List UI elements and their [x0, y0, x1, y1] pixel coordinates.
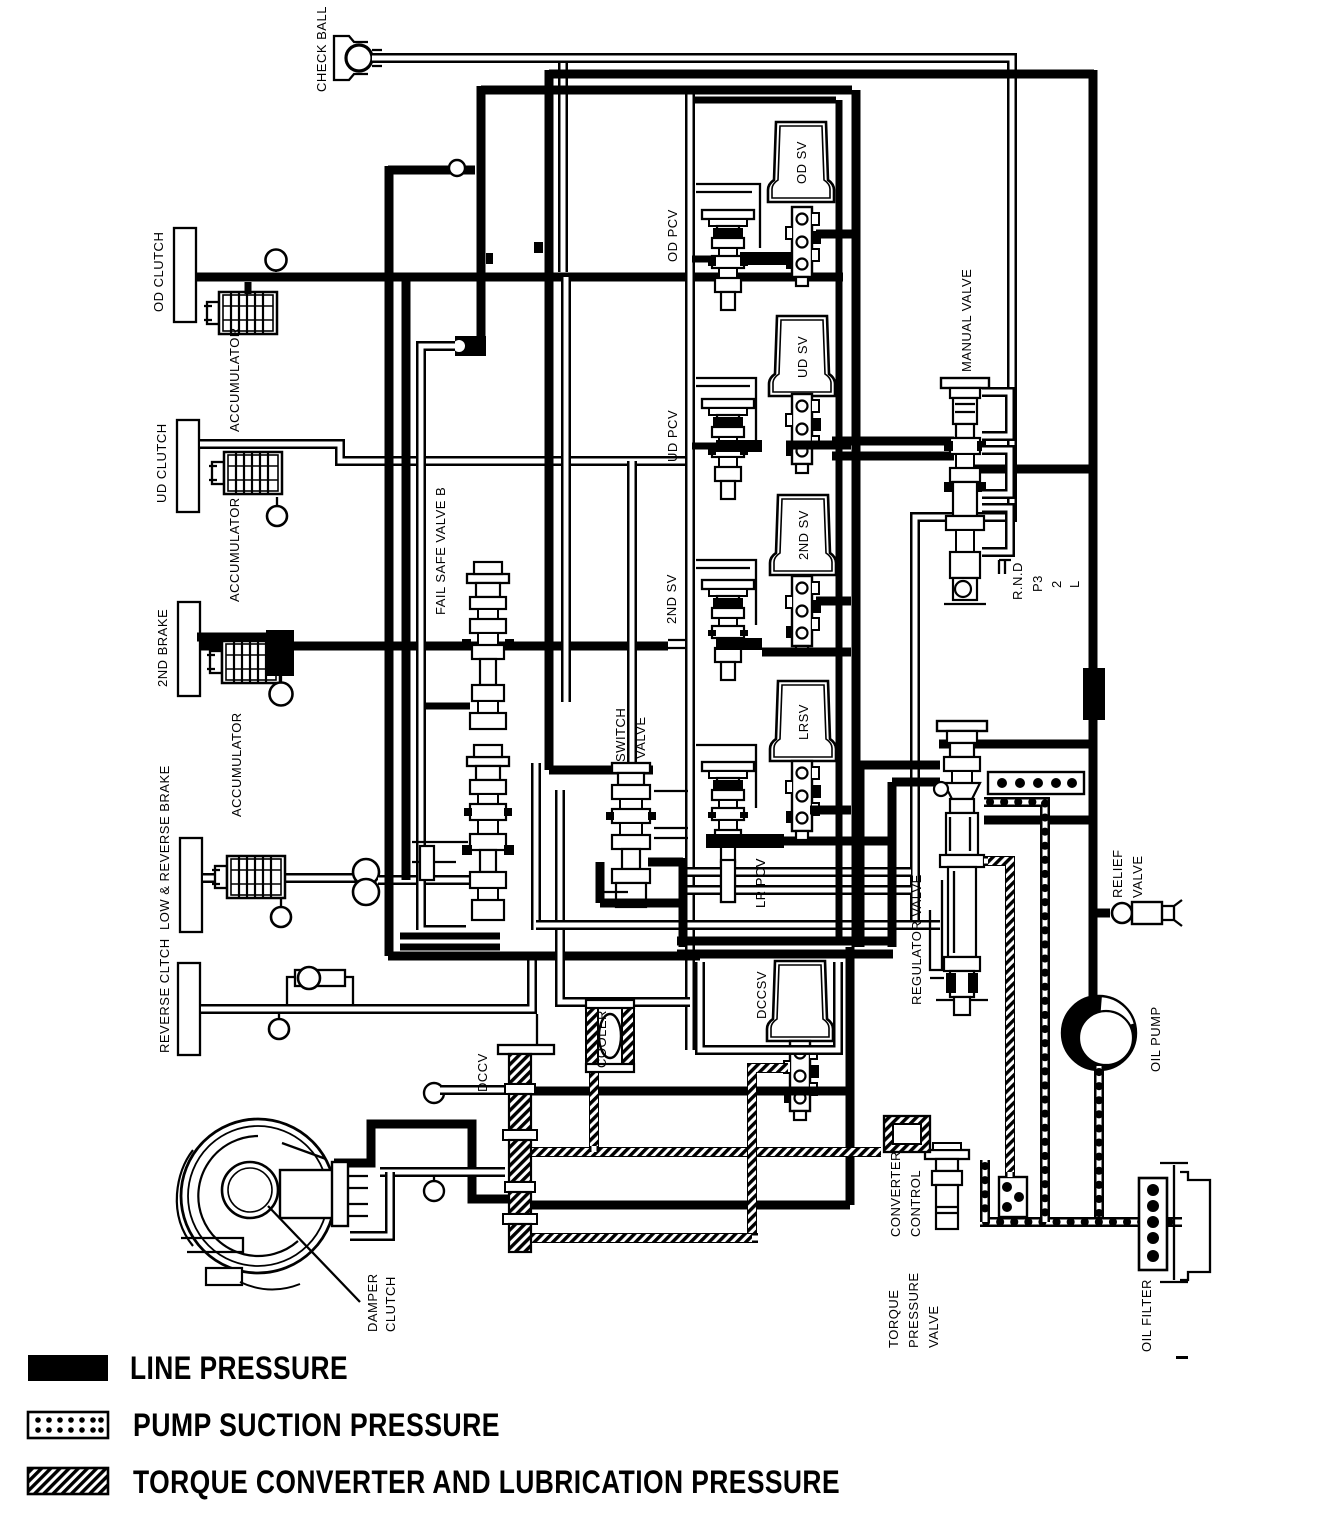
fail safe lower spool [462, 745, 514, 920]
svg-text:UD SV: UD SV [795, 336, 810, 378]
svg-text:UD PCV: UD PCV [665, 410, 680, 462]
wire thin channel to DCCV [440, 1085, 505, 1095]
svg-text:L: L [1067, 580, 1082, 588]
2ND SV solenoid [770, 495, 836, 575]
wire manual valve to trunk [975, 465, 1094, 474]
OD accumulator [204, 282, 277, 334]
wire trunk V1b [402, 277, 411, 880]
svg-text:SWITCH: SWITCH [613, 708, 628, 762]
damper clutch leader [268, 1206, 360, 1302]
svg-text:LRSV: LRSV [796, 704, 811, 740]
wire inner box top [694, 97, 836, 104]
svg-text:LINE PRESSURE: LINE PRESSURE [130, 1350, 348, 1386]
wire LR to regulator [784, 837, 892, 846]
label 2ND SV left [664, 574, 679, 624]
wire switch to wall channels [654, 791, 688, 838]
2ND PCV valve [702, 580, 762, 680]
wire low&reverse channel [202, 873, 356, 883]
label accumulator 1 [227, 327, 242, 432]
check ball on OD line [266, 250, 287, 273]
OD clutch bar [151, 228, 196, 322]
label oil filter [1139, 1279, 1154, 1352]
wire UD to switch channel [627, 461, 637, 763]
svg-text:DCCV: DCCV [475, 1053, 490, 1092]
wire manual valve feeds [832, 441, 954, 456]
label cooler [594, 1010, 609, 1068]
label LR PCV [753, 858, 768, 908]
svg-text:OIL FILTER: OIL FILTER [1139, 1279, 1154, 1352]
check ball below l&r accumulator [271, 898, 291, 927]
check ball below 2nd accumulator [270, 676, 293, 706]
2nd brake bar [155, 602, 200, 696]
wire trunk DCCV lower line [531, 1201, 850, 1210]
wire channel down to DCCV [536, 1014, 538, 1045]
svg-text:OIL PUMP: OIL PUMP [1148, 1006, 1163, 1072]
check ball below UD accumulator [267, 497, 287, 526]
label oil pump [1148, 1006, 1163, 1072]
svg-text:CHECK BALL: CHECK BALL [314, 6, 329, 92]
fail safe valve B spool [462, 562, 514, 729]
reverse clutch bar [157, 938, 200, 1055]
converter control valve [925, 1143, 969, 1229]
svg-text:CLUTCH: CLUTCH [383, 1276, 398, 1332]
svg-text:2ND SV: 2ND SV [796, 510, 811, 560]
svg-text:RELIEF: RELIEF [1110, 849, 1125, 898]
wire trunk V3 switch feed [545, 70, 554, 770]
wire bottom band lower [388, 952, 700, 961]
OD SV solenoid [768, 122, 834, 202]
svg-text:2ND SV: 2ND SV [664, 574, 679, 624]
svg-text:LR PCV: LR PCV [753, 858, 768, 908]
wire thin drop from check ball channel [558, 63, 568, 272]
svg-text:CONTROL: CONTROL [908, 1170, 923, 1237]
wire trunk H2 [481, 86, 852, 95]
manual valve spool [941, 378, 989, 604]
svg-text:MANUAL VALVE: MANUAL VALVE [959, 269, 974, 372]
wire 2ND group partition [696, 560, 756, 625]
wire check ball channel / outer box top [372, 58, 1012, 930]
label relief valve [1110, 849, 1145, 898]
wire right trunk vertical [1089, 70, 1098, 999]
wire trunk Va solenoid column right [852, 90, 861, 947]
svg-text:CONVERTER: CONVERTER [888, 1151, 903, 1237]
wire fail safe left stub [420, 703, 470, 710]
LR PCV valve [702, 762, 784, 902]
relief valve [1112, 900, 1182, 926]
cooler [586, 1000, 634, 1072]
DCCV valve hatched column [498, 1045, 554, 1252]
wire low reverse small branch [412, 842, 468, 880]
svg-text:P3: P3 [1030, 575, 1045, 592]
wire trunk V1 [385, 166, 394, 956]
svg-text:DCCSV: DCCSV [754, 971, 769, 1019]
wire trunk H3 [388, 166, 475, 175]
wire inner box right wall [836, 100, 843, 940]
svg-text:FAIL SAFE VALVE B: FAIL SAFE VALVE B [433, 487, 448, 615]
svg-text:LOW & REVERSE BRAKE: LOW & REVERSE BRAKE [157, 765, 172, 930]
svg-text:UD CLUTCH: UD CLUTCH [154, 423, 169, 503]
wire reverse clutch channel [200, 957, 532, 1009]
hatched vertical return [752, 1068, 788, 1238]
svg-text:OD PCV: OD PCV [665, 209, 680, 262]
wire TC thin channel upper [380, 1167, 505, 1177]
wire mid channel vertical [561, 277, 571, 702]
torque converter [177, 1119, 368, 1290]
teardrop check ball 2 [424, 1177, 444, 1201]
wire TC feed [334, 1124, 509, 1199]
wire fail safe lower enclosure [421, 346, 466, 930]
2ND SV valve [786, 576, 821, 655]
wire OD valve to Vb [816, 230, 856, 239]
stray mark [1176, 1356, 1188, 1359]
svg-text:PRESSURE: PRESSURE [906, 1272, 921, 1348]
svg-text:DAMPER: DAMPER [365, 1273, 380, 1332]
wire UD group partition [696, 378, 756, 440]
teardrop check ball 1 [424, 1083, 444, 1104]
wire UD valve connector [786, 441, 851, 450]
wire TC thin channel lower [350, 1172, 390, 1236]
wire LR valve connector [810, 806, 851, 815]
node tab V3 [534, 242, 543, 253]
UD SV valve [786, 394, 821, 473]
svg-text:ACCUMULATOR: ACCUMULATOR [227, 327, 242, 432]
wire regulator top feeds [860, 765, 940, 947]
node junction ball H3 [449, 160, 465, 176]
UD PCV valve [692, 399, 762, 499]
svg-text:VALVE: VALVE [633, 717, 648, 759]
svg-text:PUMP SUCTION PRESSURE: PUMP SUCTION PRESSURE [133, 1407, 500, 1443]
legend torque converter swatch [28, 1468, 108, 1494]
2nd brake accumulator [207, 630, 294, 683]
node tab V2 [486, 253, 493, 264]
DCCSV enclosure [700, 962, 838, 1050]
oil filter [1139, 1163, 1210, 1282]
svg-text:TORQUE: TORQUE [886, 1290, 901, 1348]
LRSV solenoid [770, 681, 836, 761]
wire trunk DCCV top line [531, 947, 850, 1205]
svg-text:REGULATOR VALVE: REGULATOR VALVE [909, 874, 924, 1005]
dotted junction box [999, 1177, 1027, 1217]
manual valve port boxes [982, 392, 1010, 552]
svg-text:OD CLUTCH: OD CLUTCH [151, 232, 166, 312]
svg-text:TORQUE CONVERTER AND LUBRICATI: TORQUE CONVERTER AND LUBRICATION PRESSUR… [133, 1464, 840, 1500]
wire 2nd brake line pressure [197, 637, 668, 646]
label manual valve [959, 269, 974, 372]
switch valve enclosure [536, 763, 690, 1002]
label OD PCV [665, 209, 680, 262]
label CHECK BALL [314, 6, 329, 92]
gear position labels [999, 560, 1082, 600]
wire trunk V2 fail safe feed [477, 86, 486, 338]
svg-text:COOLER: COOLER [594, 1010, 609, 1068]
legend line pressure swatch [28, 1355, 108, 1381]
spring dots row [988, 772, 1084, 794]
check ball below reverse line [269, 1014, 289, 1039]
label torque pressure valve [886, 1272, 941, 1348]
check ball [334, 36, 382, 80]
UD clutch bar [154, 420, 199, 512]
UD accumulator [209, 452, 282, 494]
dotted stub converter control [980, 1160, 990, 1222]
wire bottom band double [677, 941, 893, 954]
dotted suction horizontal [980, 1217, 1182, 1227]
label regulator valve [909, 874, 924, 1005]
svg-text:2ND BRAKE: 2ND BRAKE [155, 609, 170, 687]
svg-text:VALVE: VALVE [926, 1306, 941, 1348]
node bulge on right trunk [1083, 668, 1105, 720]
wire top trunk line pressure H1 [549, 70, 1094, 79]
OD PCV valve [692, 210, 792, 310]
LRSV valve [786, 761, 821, 840]
wire 2nd valve connector [816, 597, 851, 606]
hatched cooler drop [589, 1069, 599, 1152]
hatched regulator drop [984, 861, 1010, 1177]
wire OD clutch line pressure [196, 273, 843, 282]
hatched box at converter control [884, 1116, 930, 1152]
double ball joint [353, 859, 379, 905]
label switch valve [613, 708, 648, 762]
label UD PCV [665, 410, 680, 462]
legend pump suction swatch [28, 1412, 108, 1438]
svg-text:VALVE: VALVE [1130, 856, 1145, 898]
wire enclosure bottom box [400, 936, 500, 947]
wire switch valve top band [549, 766, 653, 775]
low&reverse accumulator [212, 856, 285, 898]
svg-text:2: 2 [1049, 580, 1064, 588]
UD SV solenoid [769, 316, 835, 396]
label accumulator 2 [227, 497, 242, 602]
wire thin pair to regulator [536, 920, 940, 930]
wire regulator to trunk [984, 816, 1094, 825]
wire manual valve lower to trunk [939, 740, 1094, 749]
wire OD group partition [696, 184, 760, 248]
regulator valve spool [930, 721, 988, 1015]
label DCCV [475, 1053, 490, 1092]
label converter control [888, 1151, 923, 1237]
DCCSV valve [784, 1041, 819, 1120]
wire switch valve bottom box [600, 858, 683, 947]
wire inner valve body left wall [685, 90, 695, 1050]
wire l&r to fail safe channel [378, 875, 470, 885]
oil pump [1062, 995, 1136, 1070]
check valve box on reverse line [287, 967, 353, 1004]
OD SV valve [786, 207, 821, 286]
wire 2nd pcv out stub [762, 648, 851, 657]
wire relief branch [1094, 909, 1110, 918]
svg-text:ACCUMULATOR: ACCUMULATOR [227, 497, 242, 602]
label accumulator 3 [229, 712, 244, 817]
wire UD clutch channel [199, 444, 688, 461]
svg-text:ACCUMULATOR: ACCUMULATOR [229, 712, 244, 817]
DCCSV solenoid [754, 961, 833, 1041]
label damper clutch [365, 1273, 398, 1332]
dotted suction pump to filter [1094, 1066, 1104, 1218]
label fail safe valve B [433, 487, 448, 615]
switch valve spool [600, 763, 656, 907]
hatched bottom line [531, 1233, 758, 1243]
low & reverse brake bar [157, 765, 202, 932]
wire channels to manual box [687, 872, 911, 890]
svg-text:OD SV: OD SV [794, 141, 809, 184]
hatched line cooler loop [531, 1147, 881, 1157]
wire overdraw trunk verticals [389, 70, 1093, 999]
wire LR group partition [696, 745, 756, 808]
node V2 elbow check ball [453, 336, 486, 356]
svg-text:REVERSE CLTCH: REVERSE CLTCH [157, 938, 172, 1053]
dotted suction from regulator [984, 802, 1045, 1222]
svg-text:R.N.D: R.N.D [1010, 562, 1025, 600]
wire 2nd jog [668, 640, 690, 648]
